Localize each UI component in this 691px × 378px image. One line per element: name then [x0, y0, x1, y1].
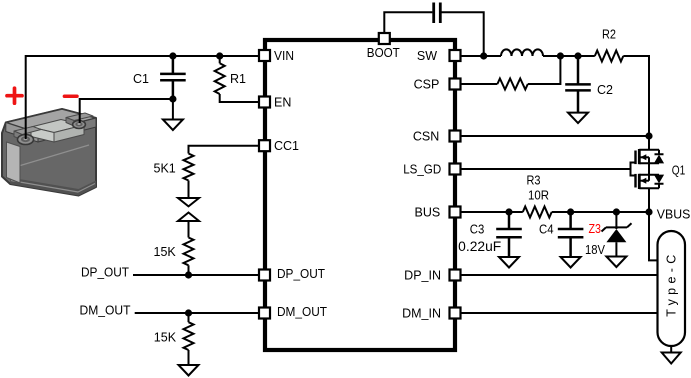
Type-C connector	[658, 231, 686, 346]
junction CSN	[645, 132, 652, 139]
wire VBUS to Type-C	[649, 212, 658, 260]
IC U1 (buck controller body)	[265, 40, 455, 350]
svg-text:C2: C2	[597, 83, 613, 97]
svg-text:BOOT: BOOT	[367, 46, 400, 60]
wire battery- to C1 bottom	[80, 99, 173, 123]
pin SW	[450, 50, 461, 61]
resistor current-sense	[497, 79, 527, 90]
wire R2 to CSN node	[623, 56, 649, 136]
wire R3 to VBUS	[552, 211, 649, 213]
svg-text:DM_IN: DM_IN	[402, 306, 441, 320]
wire inductor to R2	[543, 55, 595, 57]
pin DP_IN	[450, 270, 461, 281]
svg-text:DP_OUT: DP_OUT	[81, 266, 129, 280]
pin BOOT	[379, 33, 390, 44]
ground below C4	[561, 257, 581, 268]
wire BUS to R3	[461, 211, 523, 213]
pin CSN	[450, 131, 461, 142]
svg-text:15K: 15K	[154, 331, 177, 345]
wire DP_OUT	[133, 274, 259, 276]
pin CSP	[450, 79, 461, 90]
junction 15K/DP_OUT	[185, 271, 192, 278]
wire CC1 to 5K1	[189, 146, 260, 154]
wire sense resistor to SW node	[528, 56, 561, 84]
svg-text:Q1: Q1	[672, 164, 686, 178]
junction C1/VIN	[169, 52, 176, 59]
junction VBUS	[645, 208, 652, 215]
svg-text:C1: C1	[133, 72, 149, 86]
resistor 15K (upper)	[154, 238, 194, 276]
ground below C2	[568, 113, 588, 124]
junction C4/BUS	[567, 208, 574, 215]
capacitor C3	[458, 212, 522, 257]
svg-text:SW: SW	[417, 49, 437, 63]
wire CSP to sense resistor	[461, 83, 498, 85]
capacitor bootstrap (vertical plates)	[434, 3, 441, 24]
resistor 15K (lower)	[154, 313, 194, 365]
svg-text:BUS: BUS	[414, 206, 440, 220]
connector break arrows (CC path)	[178, 181, 199, 238]
wire DP_IN to Type-C	[461, 274, 658, 276]
battery terminal post +	[18, 135, 34, 145]
battery - label	[64, 94, 77, 98]
svg-text:C3: C3	[470, 223, 485, 237]
svg-text:LS_GD: LS_GD	[403, 163, 441, 177]
resistor 5K1	[154, 154, 194, 181]
battery terminal post -	[73, 121, 86, 129]
pin BUS	[450, 207, 461, 218]
svg-text:VIN: VIN	[274, 49, 294, 63]
svg-text:5K1: 5K1	[154, 162, 176, 176]
svg-text:C4: C4	[539, 223, 554, 237]
ground below 15K	[179, 365, 199, 376]
junction R1/VIN	[216, 52, 223, 59]
wire CSN	[461, 135, 649, 137]
svg-text:EN: EN	[274, 96, 291, 110]
wire battery+ to VIN	[26, 56, 259, 139]
svg-text:DM_OUT: DM_OUT	[277, 305, 327, 319]
svg-text:18V: 18V	[585, 243, 606, 257]
capacitor C2	[565, 56, 613, 113]
junction CSP-sense/SW node	[557, 52, 564, 59]
inductor L1	[501, 49, 543, 56]
svg-text:15K: 15K	[154, 245, 177, 259]
junction SW/bootcap	[480, 52, 487, 59]
resistor R3	[523, 174, 552, 218]
pin EN	[259, 97, 270, 108]
pin DP_OUT	[259, 270, 270, 281]
junction 15K/DM_OUT	[185, 309, 192, 316]
wire BOOT up to cap	[384, 12, 432, 33]
wire LS_GD to Q1 gate	[461, 168, 630, 170]
svg-text:CC1: CC1	[274, 139, 299, 153]
wire cap to SW node	[441, 12, 484, 56]
transistor Q1 (back-to-back MOSFETs)	[631, 136, 686, 212]
svg-text:0.22uF: 0.22uF	[458, 239, 501, 254]
pin DM_OUT	[259, 308, 270, 319]
capacitor C4	[539, 212, 583, 257]
wire DM_IN to Type-C	[461, 312, 658, 314]
junction C1/battery-	[169, 95, 176, 102]
capacitor C1	[133, 56, 186, 99]
svg-text:CSP: CSP	[414, 78, 440, 92]
ground below C3	[499, 257, 519, 268]
ground below C1	[163, 99, 183, 130]
svg-text:VBUS: VBUS	[657, 208, 691, 222]
svg-text:10R: 10R	[528, 189, 549, 203]
ground below Type-C	[662, 346, 681, 364]
pin DM_IN	[450, 308, 461, 319]
pin LS_GD	[450, 164, 461, 175]
svg-text:DM_OUT: DM_OUT	[80, 304, 131, 318]
svg-text:CSN: CSN	[413, 130, 439, 144]
junction C2/SW node	[574, 52, 581, 59]
resistor R1	[215, 56, 259, 102]
wire DM_OUT	[135, 312, 259, 314]
battery (input supply)	[2, 109, 96, 196]
pin VIN	[259, 50, 270, 61]
svg-text:DP_OUT: DP_OUT	[277, 267, 325, 281]
ground below Z3	[606, 257, 626, 268]
pin CC1	[259, 140, 270, 151]
svg-text:R2: R2	[602, 28, 616, 42]
battery + label	[7, 88, 22, 103]
svg-text:DP_IN: DP_IN	[404, 268, 441, 282]
svg-text:R3: R3	[527, 174, 541, 188]
wire SW to inductor	[461, 55, 501, 57]
junction Z3/BUS	[613, 208, 620, 215]
resistor R2	[595, 28, 624, 62]
svg-text:Z3: Z3	[588, 222, 601, 236]
zener diode Z3	[585, 212, 632, 257]
junction C3/BUS	[505, 208, 512, 215]
svg-text:R1: R1	[230, 72, 246, 86]
